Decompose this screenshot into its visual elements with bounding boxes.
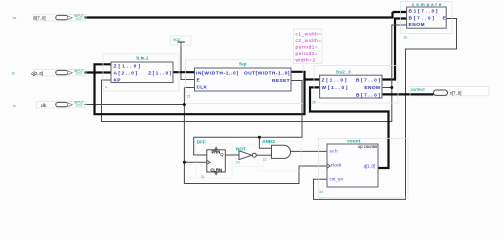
svg-text:IN[WIDTH-1..0]: IN[WIDTH-1..0] — [196, 71, 238, 77]
wire AND2 out to count sclr — [291, 150, 327, 152]
svg-text:compare: compare — [412, 2, 442, 7]
boundary NOT dashed — [236, 145, 264, 167]
svg-text:VCC: VCC — [76, 17, 84, 21]
svg-text:VCC: VCC — [76, 72, 84, 76]
boundary block1 — [103, 54, 179, 91]
svg-text:bs2_3: bs2_3 — [336, 69, 351, 74]
wire count q bus to block3 W — [309, 87, 390, 169]
wire feedback bus from fap OUT — [93, 64, 319, 115]
svg-text:OUT[WIDTH-1..0]: OUT[WIDTH-1..0] — [244, 71, 290, 77]
wire bus block3 B out to compare B port — [382, 17, 407, 80]
boundary pin q — [34, 69, 87, 76]
block count U5 up counter — [327, 144, 378, 187]
wire q input bus — [85, 71, 112, 73]
svg-text:20: 20 — [236, 161, 240, 165]
svg-text:c2_width=: c2_width= — [296, 38, 322, 43]
node clk junction upper — [183, 103, 186, 106]
svg-text:clock: clock — [331, 163, 342, 168]
svg-text:1c: 1c — [13, 104, 17, 108]
svg-text:sclr: sclr — [330, 149, 339, 154]
svg-text:VCC: VCC — [173, 38, 181, 42]
wire VCC to fap E — [181, 42, 195, 80]
block b_to_1 U1 — [111, 62, 173, 83]
boundary VCC — [171, 36, 192, 45]
boundary pin clk — [37, 101, 87, 108]
svg-text:cnt_en: cnt_en — [330, 177, 344, 182]
wire c output bus — [382, 93, 434, 95]
svg-text:34: 34 — [319, 190, 323, 194]
svg-text:B1[7..0]: B1[7..0] — [409, 9, 438, 15]
node fap out junction — [303, 78, 306, 81]
svg-text:15: 15 — [187, 95, 191, 99]
svg-text:q[1..0]: q[1..0] — [364, 164, 376, 169]
svg-text:W[1..0]: W[1..0] — [322, 85, 348, 91]
svg-text:2e: 2e — [404, 35, 408, 39]
svg-text:4: 4 — [105, 86, 107, 90]
svg-text:1b: 1b — [12, 72, 16, 76]
svg-text:c[7..0]: c[7..0] — [450, 91, 461, 96]
wire ENOM net — [102, 25, 407, 122]
node ENOM junction — [390, 86, 393, 89]
boundary compare — [401, 2, 453, 34]
svg-text:fap: fap — [239, 61, 247, 66]
svg-text:22: 22 — [263, 158, 267, 162]
svg-text:q[2..0]: q[2..0] — [31, 71, 43, 76]
block fap U2 — [195, 68, 292, 91]
svg-text:29: 29 — [312, 100, 316, 104]
svg-text:Z[1..0]: Z[1..0] — [148, 71, 171, 77]
svg-text:ENOM: ENOM — [364, 85, 380, 91]
svg-text:clk: clk — [41, 103, 47, 108]
wire block1 Z out to fap IN — [173, 71, 195, 73]
wire E net compare to cnt_en — [314, 19, 457, 200]
block bs2_3 U3 — [320, 75, 382, 98]
svg-text:b_to_1: b_to_1 — [136, 55, 148, 60]
node clk junction lower — [183, 161, 186, 164]
block compare U4 — [407, 7, 447, 28]
svg-text:Z[1..0]: Z[1..0] — [322, 77, 347, 83]
svg-text:DFF: DFF — [197, 139, 206, 144]
boundary params — [294, 29, 323, 64]
svg-text:up counter: up counter — [358, 144, 378, 149]
wire B input bus — [85, 12, 407, 19]
wire clk net — [85, 88, 328, 184]
boundary DFF dashed — [196, 144, 232, 179]
pin PRN triangle — [214, 146, 218, 149]
svg-text:period1=: period1= — [296, 45, 318, 50]
boundary fap — [186, 60, 304, 104]
svg-text:RESET: RESET — [272, 78, 290, 84]
pin CLRN triangle — [214, 172, 218, 176]
svg-text:KP: KP — [114, 78, 122, 84]
svg-text:1a: 1a — [13, 16, 17, 20]
wire RESET loop to DFF D and AND2 — [194, 81, 302, 156]
svg-text:width=2: width=2 — [296, 58, 316, 63]
svg-text:OUTPUT: OUTPUT — [411, 88, 426, 92]
svg-text:CLRN: CLRN — [210, 167, 222, 172]
wire NOT out to AND2 — [257, 154, 272, 156]
svg-text:VCC: VCC — [76, 103, 84, 107]
pin clock chevron DFF — [207, 160, 210, 164]
svg-text:c1_width=: c1_width= — [296, 32, 322, 37]
svg-text:ENOM: ENOM — [409, 22, 425, 28]
svg-text:B[7..0]: B[7..0] — [33, 15, 45, 20]
svg-text:NOT: NOT — [236, 146, 246, 151]
boundary count — [318, 138, 408, 197]
wire DFF Q to NOT — [225, 154, 239, 156]
svg-text:period2=: period2= — [296, 51, 318, 56]
svg-text:CLK: CLK — [197, 85, 208, 91]
boundary output pin — [410, 87, 489, 96]
svg-text:21: 21 — [201, 175, 205, 179]
pin clock chevron count — [327, 164, 330, 168]
boundary AND dashed — [258, 142, 301, 172]
svg-text:PRN: PRN — [211, 150, 220, 155]
boundary pin B — [34, 14, 87, 21]
boundary block3 — [314, 66, 398, 104]
svg-text:AND2: AND2 — [262, 139, 275, 144]
node loop junction — [258, 136, 261, 139]
